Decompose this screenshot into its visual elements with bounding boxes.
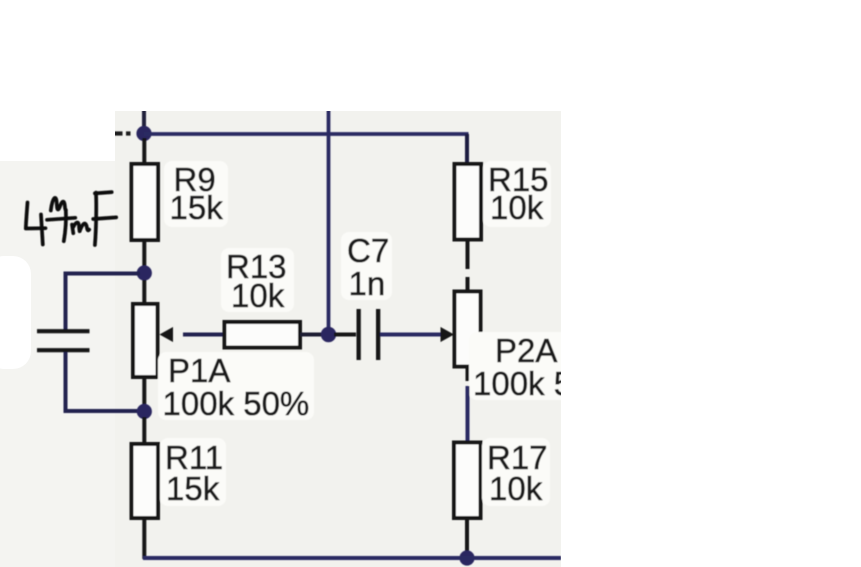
- potentiometer P1A body: [133, 280, 158, 405]
- wire: hand capacitor bottom branch: [66, 352, 141, 411]
- wire: dashed stub at left end of top rail: [113, 131, 131, 135]
- resistor R13: [225, 322, 301, 348]
- capacitor C-hand (47nF) plates: [37, 331, 90, 350]
- svg-text:10k: 10k: [231, 277, 285, 314]
- node: junction at C7 branch: [321, 327, 336, 342]
- svg-text:15k: 15k: [170, 189, 224, 226]
- wire: R13 to junction: [300, 333, 324, 337]
- potentiometer P1A wiper arrow: [160, 327, 174, 342]
- potentiometer P2A body: [455, 292, 481, 382]
- wire: top rail: [144, 132, 469, 136]
- resistor R17: [454, 443, 481, 557]
- label: P1A 100k 50%: [158, 352, 314, 422]
- wire: junction to C7 left plate: [334, 333, 356, 337]
- svg-text:100k 50%: 100k 50%: [163, 385, 310, 422]
- svg-text:10k: 10k: [489, 470, 543, 507]
- svg-text:1n: 1n: [349, 265, 386, 302]
- resistor R9: [132, 138, 159, 266]
- wire: right column drop from top rail to R15: [465, 134, 469, 165]
- node: bottom junction: [459, 550, 474, 565]
- resistor R11: [132, 417, 159, 559]
- label: C7 1n: [341, 232, 392, 302]
- potentiometer P2A wiper arrow: [441, 327, 455, 342]
- annotation: handwritten 47nF: [26, 192, 116, 245]
- label: R13 10k: [221, 248, 294, 314]
- wire: feed stub above top-left junction: [142, 110, 146, 130]
- wire: wiper branch from P1A to R13: [183, 333, 225, 337]
- label: R9 15k: [164, 161, 228, 227]
- node: junction P1A/C-hand/R11: [137, 404, 152, 419]
- svg-text:P1A: P1A: [168, 352, 230, 389]
- svg-text:P2A: P2A: [495, 332, 557, 369]
- svg-text:15k: 15k: [166, 470, 220, 507]
- wire: segment between R15 and P2A: [466, 277, 470, 292]
- label: R11 15k: [160, 438, 226, 507]
- wire: vertical net from top to C7 node: [327, 110, 331, 331]
- label: P2A 100k 50%: [469, 332, 620, 402]
- label: R15 10k: [483, 161, 551, 227]
- wire: C7 right plate to P2A wiper: [380, 333, 441, 337]
- node: top-left junction: [136, 126, 151, 141]
- wire: bottom rail: [143, 556, 561, 560]
- wire: segment between P2A and R17: [466, 386, 470, 443]
- capacitor C7: [357, 309, 381, 360]
- wire: hand capacitor top branch: [66, 274, 141, 331]
- label: R17 10k: [482, 438, 550, 507]
- resistor R15: [455, 164, 482, 269]
- svg-text:10k: 10k: [490, 189, 544, 226]
- svg-text:C7: C7: [347, 232, 389, 269]
- node: junction R9/P1A/C-hand top: [137, 265, 152, 280]
